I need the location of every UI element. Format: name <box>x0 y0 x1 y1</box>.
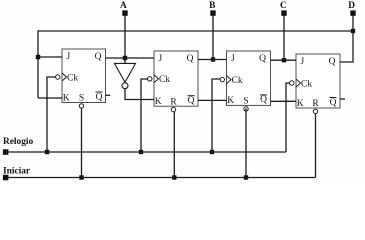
junction node D to top feedback <box>351 29 355 33</box>
wire: Relogio to Ck3 <box>212 79 220 152</box>
svg-text:Ck: Ck <box>67 73 78 83</box>
svg-text:Q: Q <box>329 57 336 67</box>
clock edge triangle (U3) <box>227 76 232 84</box>
svg-text:Q: Q <box>260 95 267 105</box>
clock edge triangle (U4) <box>296 79 301 87</box>
wire: Iniciar to R2 <box>173 111 175 177</box>
svg-text:R: R <box>170 97 177 107</box>
wire: Q1bar stub <box>106 94 111 96</box>
svg-text:Q: Q <box>188 96 195 106</box>
wire: Iniciar to S3 <box>245 108 247 177</box>
wire: inverter input stub <box>124 58 126 63</box>
junction R2 on Iniciar rail <box>172 175 176 179</box>
R input bubble (U2) <box>171 107 175 111</box>
wire: Q2 to J3 <box>198 59 227 61</box>
svg-text:A: A <box>120 1 127 11</box>
S input bubble (U1) <box>79 104 83 108</box>
flip-flop U4 (JK flip-flop box) <box>296 54 340 108</box>
clock edge triangle (U1) <box>62 73 67 81</box>
wire: Relogio to Ck2 <box>141 79 148 152</box>
wire: Relogio to Ck1 <box>47 77 56 152</box>
wire: Q2bar to K3 <box>198 99 227 101</box>
junction node C tap <box>282 58 286 62</box>
junction feedback to J1 <box>36 55 40 59</box>
node Relogio (clock input rail) <box>3 137 286 155</box>
svg-text:Relogio: Relogio <box>3 137 34 147</box>
svg-text:Q: Q <box>259 54 266 64</box>
node D (output terminal) <box>348 1 355 16</box>
clock input bubble (U4) <box>290 81 294 85</box>
junction Ck2 on Relogio rail <box>139 150 143 154</box>
svg-text:C: C <box>280 1 287 11</box>
svg-text:Q: Q <box>187 54 194 64</box>
svg-text:K: K <box>297 99 304 109</box>
node C (output terminal) <box>280 1 287 16</box>
wire: inverter output to K2 <box>125 89 154 100</box>
svg-text:K: K <box>155 97 162 107</box>
junction S3 on Iniciar rail <box>244 175 248 179</box>
wire: node C riser <box>283 16 285 61</box>
junction S1 on Iniciar rail <box>79 175 83 179</box>
svg-text:Q: Q <box>330 98 337 108</box>
svg-text:J: J <box>301 57 305 67</box>
clock edge triangle (U2) <box>154 75 159 83</box>
flip-flop U2 (JK flip-flop box) <box>154 51 198 106</box>
wire: K1 input <box>38 97 62 99</box>
svg-text:Ck: Ck <box>232 76 243 86</box>
wire: Q3bar to K4 <box>271 100 297 102</box>
svg-text:S: S <box>79 94 84 104</box>
inverter U5 (NOT gate, pointing down) <box>115 63 136 88</box>
svg-text:J: J <box>231 54 235 64</box>
wire: top feedback from node D to J1/K1 <box>38 30 353 32</box>
node A (output terminal) <box>120 1 128 16</box>
svg-text:B: B <box>209 1 215 11</box>
wire: Q3 to J4 <box>271 59 297 61</box>
wire: Q4bar stub <box>340 98 345 100</box>
junction node B tap <box>211 57 215 61</box>
svg-text:Ck: Ck <box>301 79 312 89</box>
wire: left vertical feedback riser <box>37 30 39 98</box>
wire: J1 input <box>38 56 62 58</box>
node Iniciar (reset input rail) <box>3 167 316 181</box>
svg-text:Ck: Ck <box>159 75 170 85</box>
wire: node B riser <box>212 16 214 60</box>
wire: Relogio rail end riser to Ck4 <box>286 83 290 152</box>
svg-text:J: J <box>159 54 163 64</box>
flip-flop U1 (JK flip-flop box) <box>62 49 106 103</box>
svg-text:S: S <box>243 97 248 107</box>
svg-text:Q: Q <box>96 92 103 102</box>
svg-text:J: J <box>67 52 71 62</box>
junction Ck1 on Relogio rail <box>45 150 49 154</box>
svg-text:D: D <box>348 1 355 11</box>
junction node A tap / inverter input <box>123 56 127 60</box>
clock input bubble (U2) <box>148 77 152 81</box>
R input bubble (U4) <box>313 109 317 113</box>
junction Ck3 on Relogio rail <box>210 150 214 154</box>
clock input bubble (U1) <box>56 75 60 79</box>
wire: Iniciar rail end riser to R4 <box>315 114 317 178</box>
S input bubble (U3) <box>244 107 248 111</box>
node B (output terminal) <box>209 1 216 16</box>
svg-text:K: K <box>63 93 70 103</box>
wire: Q4 to node D <box>340 16 353 63</box>
clock input bubble (U3) <box>220 77 224 81</box>
wire: Iniciar to S1 <box>81 108 83 177</box>
wire: Q1 to J2 <box>106 57 155 59</box>
svg-text:Q: Q <box>95 52 102 62</box>
svg-text:R: R <box>312 99 319 109</box>
wire: node A riser <box>124 16 126 59</box>
flip-flop U3 (JK flip-flop box) <box>227 51 271 105</box>
svg-text:K: K <box>227 96 234 106</box>
